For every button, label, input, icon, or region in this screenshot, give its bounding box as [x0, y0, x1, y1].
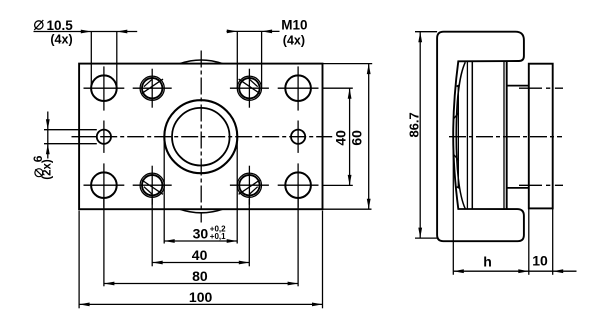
svg-text:80: 80 [192, 268, 208, 284]
central bore outer [164, 100, 237, 173]
threaded hole BR [230, 166, 269, 205]
svg-text:(2x): (2x) [42, 159, 54, 180]
bottom boss arc [180, 209, 222, 213]
dim h / 10 [453, 137, 576, 275]
dim 30 +0,2/+0,1 [164, 140, 237, 244]
dim 60 right vertical [323, 64, 373, 210]
threaded hole BL [133, 166, 172, 205]
crown curve B [456, 62, 465, 209]
svg-text:(4x): (4x) [50, 33, 72, 47]
threaded hole TL [133, 69, 172, 108]
dim 100 [79, 211, 322, 309]
crown transition tick lower outer [457, 187, 460, 188]
plate right face lines [503, 62, 505, 210]
vertical centerline [200, 51, 202, 223]
small side hole right [291, 121, 305, 153]
corner hole TL [84, 66, 125, 110]
svg-text:10: 10 [532, 253, 548, 269]
crown transition tick upper inner [454, 113, 459, 119]
crown transition tick upper outer [457, 85, 460, 86]
dim 40 right vertical [323, 88, 353, 185]
connector top [507, 85, 529, 87]
connector bottom [507, 187, 529, 189]
crown transition tick lower inner [454, 155, 459, 161]
corner hole BR [278, 163, 319, 207]
svg-text:30: 30 [193, 226, 209, 242]
centerline bottom hole axis [519, 184, 563, 186]
dim 40 bottom [152, 199, 249, 266]
svg-text:+0,1: +0,1 [210, 232, 226, 241]
dim Ø6 (2x) left [31, 112, 97, 180]
svg-text:(4x): (4x) [283, 33, 305, 47]
bracket outline [437, 32, 524, 242]
svg-text:10.5: 10.5 [47, 18, 74, 33]
horizontal centerline [72, 136, 98, 138]
plate outline [79, 64, 322, 210]
main axis centerline [449, 136, 562, 138]
corner hole TR [278, 66, 319, 110]
dim 86.7 [406, 32, 437, 238]
right block [529, 64, 553, 209]
central bore inner [172, 108, 230, 166]
vertical V1 [466, 62, 468, 209]
dim 80 [104, 199, 298, 287]
svg-text:86.7: 86.7 [406, 112, 421, 137]
svg-text:100: 100 [189, 289, 213, 305]
dim M10 (4x) [227, 18, 308, 89]
svg-text:40: 40 [332, 130, 348, 146]
svg-text:h: h [483, 253, 492, 269]
corner hole BL [84, 163, 125, 207]
dim Ø10.5 (4x) [34, 18, 138, 88]
centerline top hole axis [519, 87, 563, 89]
top boss arc [180, 60, 222, 64]
svg-text:M10: M10 [281, 18, 307, 33]
svg-text:40: 40 [192, 247, 208, 263]
small side hole left [97, 121, 111, 153]
vertical V2 [471, 62, 473, 209]
crown mid vertical line [457, 86, 459, 187]
threaded hole TR [230, 69, 269, 108]
svg-text:60: 60 [349, 130, 365, 146]
